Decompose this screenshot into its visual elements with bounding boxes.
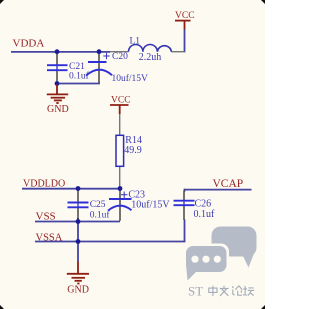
svg-text:VDDA: VDDA <box>13 38 45 50</box>
svg-text:GND: GND <box>67 285 89 296</box>
svg-text:49.9: 49.9 <box>124 145 142 156</box>
svg-text:VSSA: VSSA <box>36 232 63 243</box>
svg-text:ST: ST <box>188 283 203 298</box>
svg-text:2.2uh: 2.2uh <box>139 52 162 63</box>
svg-text:VDDLDO: VDDLDO <box>23 178 65 189</box>
svg-text:C20: C20 <box>112 52 128 62</box>
svg-text:10uf/15V: 10uf/15V <box>112 73 149 84</box>
svg-text:C21: C21 <box>69 62 85 72</box>
svg-text:VCC: VCC <box>111 95 131 105</box>
svg-text:GND: GND <box>47 104 69 115</box>
svg-text:VCAP: VCAP <box>213 178 244 190</box>
svg-text:0.1uf: 0.1uf <box>194 209 216 220</box>
svg-text:L1: L1 <box>130 37 141 47</box>
svg-text:0.1uf: 0.1uf <box>69 71 90 82</box>
svg-text:C26: C26 <box>195 198 212 209</box>
svg-text:VCC: VCC <box>175 11 195 21</box>
svg-text:C25: C25 <box>90 200 106 210</box>
svg-text:10uf/15V: 10uf/15V <box>131 199 170 210</box>
svg-text:0.1uf: 0.1uf <box>90 210 111 221</box>
svg-text:VSS: VSS <box>36 211 56 223</box>
